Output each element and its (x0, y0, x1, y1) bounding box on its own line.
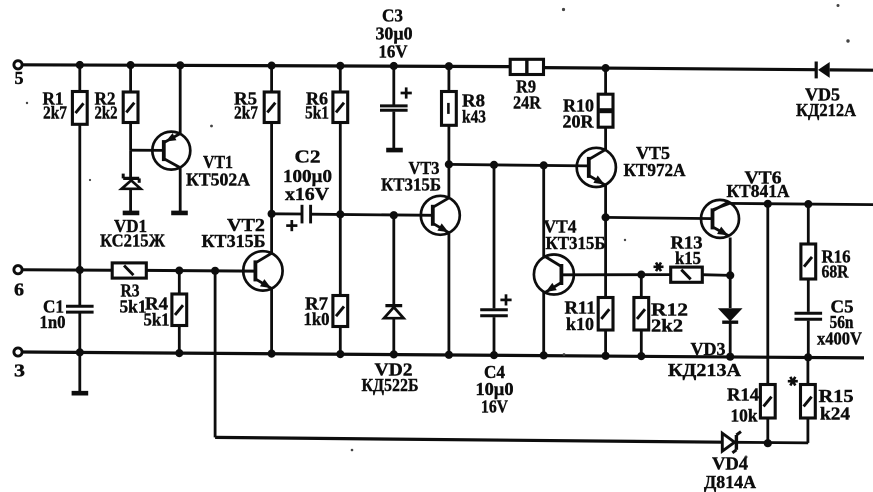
svg-text:КД212А: КД212А (796, 100, 856, 120)
svg-text:3: 3 (14, 361, 25, 381)
svg-text:КД213А: КД213А (668, 360, 741, 380)
svg-text:VD3: VD3 (691, 339, 726, 359)
svg-text:1k0: 1k0 (304, 309, 330, 329)
svg-text:КТ502А: КТ502А (186, 170, 250, 190)
svg-text:R14: R14 (727, 385, 759, 405)
svg-text:k24: k24 (820, 404, 850, 424)
svg-text:2k7: 2k7 (43, 103, 67, 123)
svg-text:20R: 20R (563, 112, 595, 132)
svg-text:5: 5 (15, 68, 24, 88)
svg-text:КТ315Б: КТ315Б (381, 175, 441, 195)
svg-text:16V: 16V (379, 42, 408, 62)
svg-text:k43: k43 (462, 107, 486, 127)
svg-text:VD4: VD4 (712, 454, 748, 474)
svg-text:30µ0: 30µ0 (376, 24, 413, 44)
svg-text:C3: C3 (382, 6, 403, 26)
svg-text:6: 6 (14, 280, 24, 300)
svg-text:5k1: 5k1 (120, 297, 147, 317)
svg-text:16V: 16V (481, 397, 508, 417)
svg-text:2k7: 2k7 (234, 103, 258, 123)
svg-text:2k2: 2k2 (651, 316, 683, 336)
svg-text:2k2: 2k2 (95, 103, 118, 123)
svg-text:x400V: x400V (817, 329, 862, 349)
svg-text:24R: 24R (513, 93, 542, 113)
svg-text:68R: 68R (822, 262, 850, 282)
svg-text:КТ841А: КТ841А (727, 181, 790, 201)
svg-text:КД522Б: КД522Б (362, 375, 419, 395)
svg-text:5k1: 5k1 (144, 310, 170, 330)
svg-text:5k1: 5k1 (305, 103, 329, 123)
svg-text:КТ972А: КТ972А (624, 160, 686, 180)
svg-text:k15: k15 (675, 248, 701, 268)
svg-text:КТ315Б: КТ315Б (202, 231, 266, 251)
svg-text:КС215Ж: КС215Ж (100, 231, 165, 251)
svg-text:x16V: x16V (285, 184, 329, 204)
svg-text:k10: k10 (566, 314, 594, 334)
svg-text:C2: C2 (295, 147, 321, 167)
svg-text:Д814А: Д814А (704, 472, 756, 492)
svg-text:10k: 10k (731, 406, 758, 426)
svg-text:КТ315Б: КТ315Б (546, 233, 606, 253)
svg-text:100µ0: 100µ0 (283, 166, 332, 186)
svg-text:1n0: 1n0 (40, 312, 66, 332)
